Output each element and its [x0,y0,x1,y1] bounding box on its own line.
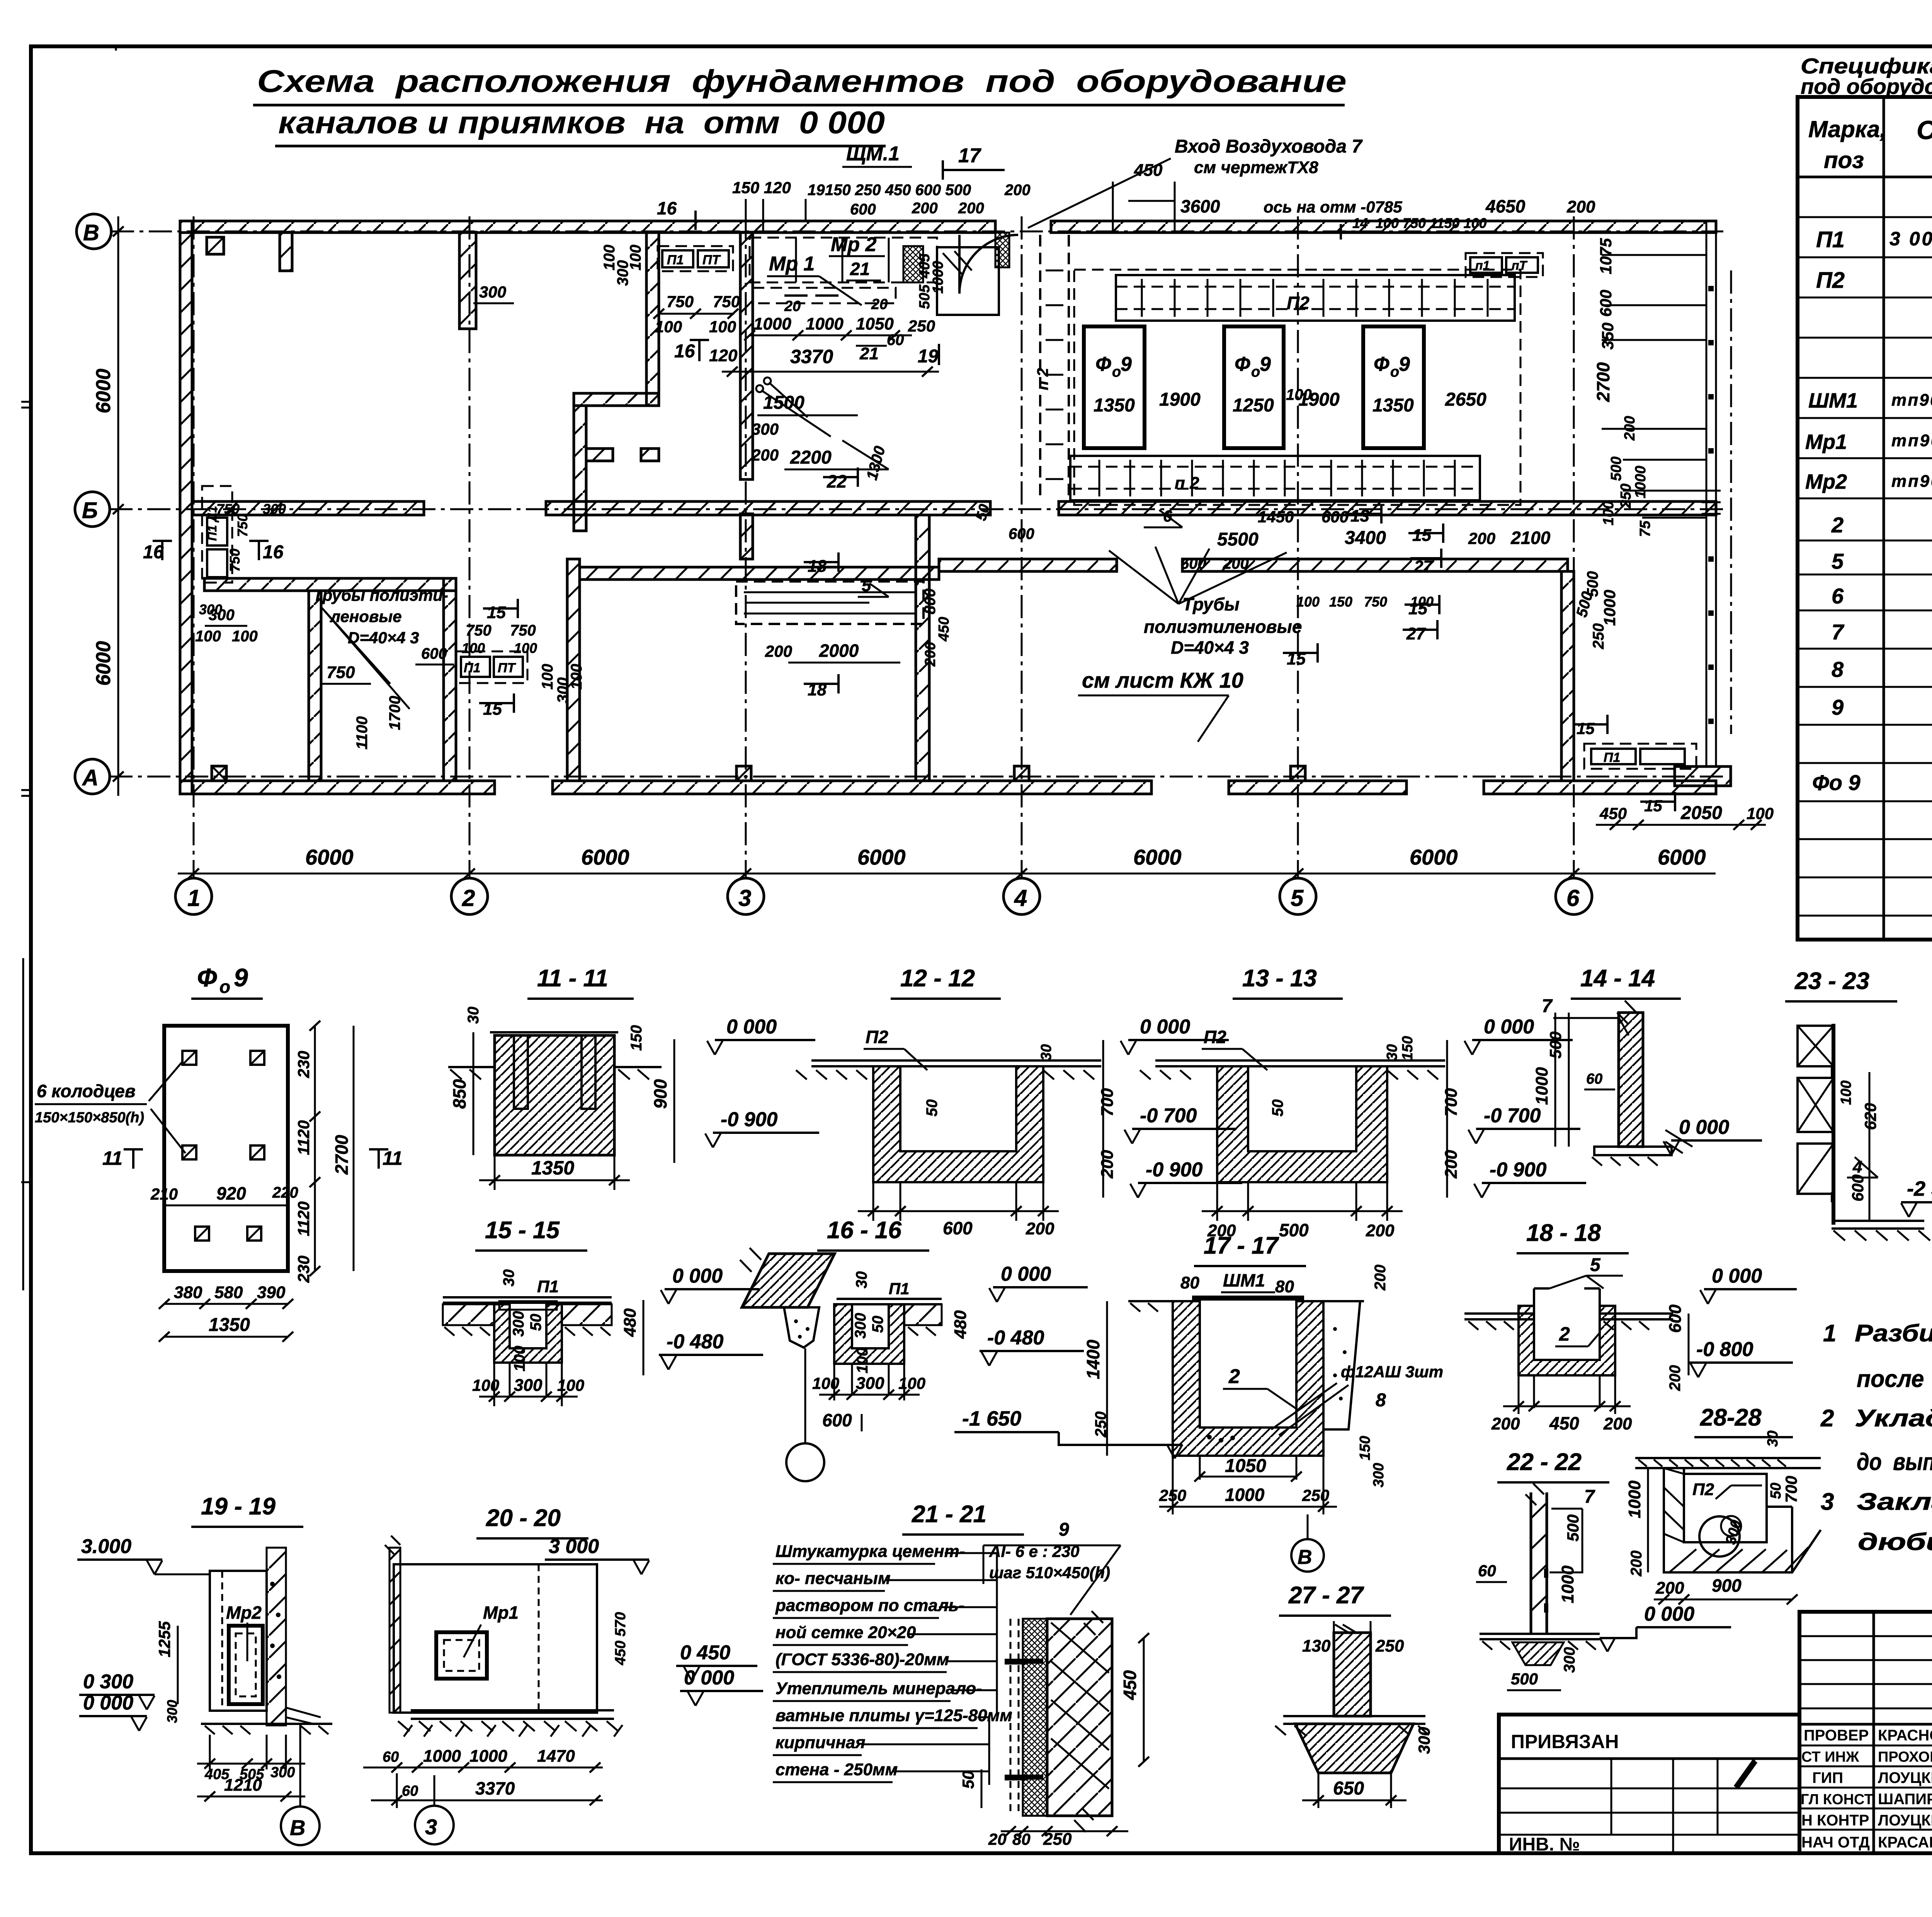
foundation Фо9 #2 [1224,326,1284,448]
svg-text:леновые: леновые [330,607,402,625]
svg-text:6000: 6000 [92,641,115,686]
section 12-12: dims and levels [858,1016,1242,1238]
section 28-28: pit plan [1635,1458,1821,1572]
svg-text:П2: П2 [1287,293,1310,313]
svg-text:о: о [1251,364,1260,380]
svg-text:Мр 1: Мр 1 [769,253,815,275]
svg-text:11: 11 [102,1147,122,1169]
svg-text:750: 750 [1364,594,1387,610]
foundation Фо9 #1 [1084,326,1145,448]
svg-text:ПРИВЯЗАН: ПРИВЯЗАН [1511,1731,1619,1752]
svg-text:300: 300 [752,420,779,438]
svg-text:150: 150 [1400,1036,1416,1060]
plan: vertical axis lines 1-6 [194,216,1574,878]
svg-text:100: 100 [709,318,736,336]
svg-text:15: 15 [1412,526,1431,545]
svg-text:200: 200 [765,642,792,660]
svg-text:150 120: 150 120 [732,178,791,197]
svg-text:850: 850 [449,1079,469,1109]
section 23-23: dims [1838,1072,1932,1221]
notes: item 2 [1820,1405,1932,1475]
plan: dimension texts upper middle (Мр1/Мр2 area) [601,233,946,491]
svg-text:700: 700 [1098,1088,1117,1117]
svg-text:о: о [1112,364,1121,380]
section 17-17: deep pit [1128,1270,1364,1456]
svg-text:Мр1: Мр1 [1805,430,1847,454]
svg-text:200: 200 [1004,182,1031,199]
svg-text:6000: 6000 [581,845,629,869]
section 19-19: levels and dims [77,1535,320,1845]
wall: top exterior (axis В) [180,221,1716,233]
svg-text:250: 250 [1159,1486,1186,1504]
svg-text:100: 100 [1838,1081,1854,1105]
title block: signature rows [1799,1727,1932,1851]
svg-text:2: 2 [1831,513,1844,537]
section 16-16: labels, dims, callout circle [786,1263,1088,1481]
section 27-27: title [1279,1582,1391,1616]
svg-text:1000: 1000 [1633,466,1649,498]
section 11-11: dims [449,1007,819,1190]
svg-text:220: 220 [272,1184,298,1201]
svg-text:75: 75 [1637,520,1653,537]
svg-text:150×150×850(h): 150×150×850(h) [35,1110,144,1126]
svg-text:п1: п1 [1475,258,1490,272]
svg-text:Ф: Ф [197,963,217,992]
plan: middle annotations 5500/3400 row [973,503,1619,668]
svg-text:300: 300 [1371,1463,1387,1487]
svg-text:100: 100 [568,664,585,690]
plan: см лист КЖ 10 annotation [1078,668,1243,742]
section 19-19: wall elevation with frame Мр2 [201,1548,332,1734]
svg-text:D=40×4 3: D=40×4 3 [348,629,419,647]
svg-text:7: 7 [1542,996,1553,1016]
section Фо9: bottom dims [150,1183,298,1342]
svg-text:50: 50 [923,1100,940,1117]
svg-text:100: 100 [1286,386,1312,403]
svg-text:200: 200 [1603,1414,1632,1433]
plan: axis circle Б [75,492,110,527]
notes: item 3 [1821,1489,1932,1555]
svg-text:27: 27 [1414,557,1433,575]
svg-text:СТ ИНЖ: СТ ИНЖ [1801,1749,1859,1765]
svg-text:1350: 1350 [1094,395,1135,416]
section Фо9: foundation plan rectangle [164,1026,288,1271]
specification table grid [1798,97,1932,940]
svg-text:п 2: п 2 [1175,474,1199,493]
svg-text:ПТ: ПТ [702,253,721,267]
svg-text:4: 4 [1014,885,1027,911]
svg-text:Схема расположения фундамент: Схема расположения фундаментов под обору… [257,64,1347,99]
svg-text:ШАПИРО: ШАПИРО [1878,1791,1932,1808]
section 21-21: wall detail with insulation [1005,1611,1112,1832]
wall: axis Б interior with openings [192,501,1716,515]
svg-text:9: 9 [234,963,248,992]
svg-text:ШМ1: ШМ1 [1223,1270,1265,1290]
column: pier on А axis x3359 [1291,766,1305,781]
svg-text:ко- песчаным: ко- песчаным [776,1569,891,1588]
svg-text:250: 250 [1302,1486,1329,1504]
svg-text:700: 700 [1782,1476,1800,1503]
svg-text:тп902-9-40 86 КЖИ Мр2: тп902-9-40 86 КЖИ Мр2 [1891,472,1932,491]
svg-text:150: 150 [1329,594,1352,610]
wall: left exterior (axis 1) [180,221,192,794]
svg-text:0 000: 0 000 [83,1692,133,1714]
svg-text:80: 80 [1275,1277,1294,1296]
svg-text:750: 750 [327,663,355,682]
svg-text:390: 390 [257,1283,286,1302]
svg-text:210: 210 [150,1185,178,1203]
svg-text:30: 30 [853,1271,870,1289]
svg-text:300: 300 [510,1311,527,1337]
svg-text:900: 900 [1712,1575,1742,1596]
svg-text:230: 230 [294,1256,313,1283]
section 19-19: title [191,1493,303,1527]
svg-text:600: 600 [943,1218,973,1238]
section Фо9: колодцев annotation [35,1062,185,1153]
svg-text:1000: 1000 [1532,1067,1551,1105]
section 11-11: pier body [377,1032,662,1155]
svg-text:30: 30 [1765,1431,1781,1447]
plan: lower-left room dims [195,552,952,749]
svg-text:Разбивку гнезда фундаментов: Разбивку гнезда фундаментов производить [1855,1320,1932,1347]
svg-text:100: 100 [854,1348,871,1373]
svg-text:20: 20 [871,296,888,313]
svg-text:-0 700: -0 700 [1140,1105,1197,1127]
title block: привязан extension box [1499,1715,1799,1855]
svg-text:9: 9 [1059,1519,1069,1540]
section 20-20: wall elevation with frame Мр1 [385,1536,622,1737]
plan: Трубы полиэтиленовые annotation (center) [1109,547,1302,658]
svg-text:П1: П1 [537,1277,559,1296]
svg-text:27: 27 [1406,624,1426,643]
svg-text:920: 920 [216,1183,246,1203]
svg-text:2: 2 [1228,1365,1240,1388]
svg-text:100: 100 [511,1346,528,1371]
svg-text:7: 7 [1832,620,1845,644]
svg-text:1000: 1000 [1625,1480,1644,1518]
svg-text:2: 2 [1820,1405,1834,1432]
svg-text:800: 800 [922,588,939,614]
svg-text:30: 30 [1038,1044,1054,1060]
channel: п1 пТ boxes top right [1466,253,1543,277]
svg-text:22: 22 [827,471,847,491]
section Фо9: right dim chain [294,1021,354,1283]
svg-text:300: 300 [852,1313,869,1339]
svg-text:2200: 2200 [790,447,832,468]
svg-text:1050: 1050 [1225,1456,1266,1476]
main drawing title line 2 [275,105,886,146]
svg-text:2700: 2700 [332,1135,352,1175]
section 12-12: channel body [796,1060,1101,1182]
svg-text:250: 250 [1375,1637,1404,1655]
column: pier on А axis x2644 [1014,766,1029,781]
svg-text:30: 30 [465,1007,482,1024]
plan: bottom right dims 450/15/2050/100 [1573,715,1774,830]
svg-text:23 - 23: 23 - 23 [1794,968,1869,994]
svg-text:100: 100 [232,628,258,645]
svg-text:9: 9 [1121,353,1132,376]
svg-text:100: 100 [655,318,682,336]
svg-text:200: 200 [1667,1365,1684,1391]
svg-text:650: 650 [1333,1778,1364,1799]
channel: vertical ladder п2 left of vent room [1034,235,1069,501]
svg-text:0 000: 0 000 [672,1265,723,1287]
svg-text:5: 5 [1590,1255,1601,1275]
svg-text:ШМ1: ШМ1 [1808,389,1858,412]
column: pier on А axis x567 [212,766,226,781]
svg-text:450: 450 [1599,804,1627,823]
svg-text:50: 50 [869,1316,886,1333]
svg-text:6000: 6000 [305,845,354,869]
svg-text:3600: 3600 [1180,196,1220,216]
svg-text:300: 300 [1561,1647,1578,1673]
svg-text:200: 200 [922,642,939,667]
section 18-18: dims [1491,1265,1797,1433]
svg-text:100: 100 [539,664,556,690]
svg-text:500: 500 [1511,1670,1538,1688]
svg-text:Марка,: Марка, [1808,116,1886,142]
svg-text:кирпичная: кирпичная [776,1733,866,1752]
svg-text:дюбилями к подпорной стенке: дюбилями к подпорной стенке [1858,1529,1932,1555]
svg-text:каналов и приямков на отм 0: каналов и приямков на отм 0 000 [278,105,885,140]
svg-text:3 000: 3 000 [549,1535,599,1558]
svg-text:1000: 1000 [1600,590,1619,626]
svg-text:П1: П1 [1816,227,1845,252]
svg-text:1900: 1900 [1159,389,1201,410]
svg-text:30: 30 [500,1270,517,1287]
svg-text:полиэтиленовые: полиэтиленовые [1144,617,1302,637]
section Фо9: cut mark 11 right [369,1147,403,1169]
svg-text:450: 450 [936,617,952,642]
svg-text:200: 200 [1566,197,1595,216]
svg-text:1075: 1075 [1597,238,1615,274]
section 17-17: title [1194,1232,1306,1266]
svg-text:300: 300 [856,1374,884,1393]
svg-text:ПТ: ПТ [498,661,516,675]
svg-text:ИНВ. №: ИНВ. № [1509,1834,1580,1855]
wall: interior partition on axis 3 [740,232,753,559]
svg-text:П2: П2 [1692,1480,1714,1499]
wall: lower-left room top partition [204,578,456,591]
section 21-21: title [902,1501,1024,1535]
svg-text:150 250 450 600 500: 150 250 450 600 500 [825,182,971,199]
svg-text:19 - 19: 19 - 19 [201,1493,276,1520]
svg-text:700: 700 [1442,1088,1461,1117]
wall: vertical partition near axis 6 [1561,571,1574,781]
plan section mark 17 top [943,144,1005,180]
plan: axis circle 6 [1556,878,1592,914]
svg-text:3: 3 [738,885,751,911]
svg-text:0 000: 0 000 [1679,1116,1729,1139]
svg-text:1120: 1120 [294,1202,313,1236]
svg-text:15: 15 [487,603,506,622]
svg-text:6000: 6000 [1410,845,1458,869]
section 13-13: П2 label [1202,1027,1267,1070]
plan top dimension chain texts [653,161,1595,240]
svg-text:250: 250 [1590,623,1607,649]
svg-text:ной сетке 20×20: ной сетке 20×20 [776,1623,916,1642]
svg-text:Фо 9: Фо 9 [1812,770,1861,795]
section 14-14: dims [1532,1013,1762,1155]
plan: axis circle 5 [1280,878,1316,914]
svg-text:9: 9 [1832,695,1844,719]
svg-text:2700: 2700 [1593,362,1613,402]
svg-text:27 - 27: 27 - 27 [1288,1582,1364,1609]
svg-text:200: 200 [1366,1221,1395,1240]
svg-text:5: 5 [1291,885,1304,911]
svg-text:ПРОХОРОВА: ПРОХОРОВА [1878,1749,1932,1765]
channel: П1 boxes bottom right [1584,744,1696,769]
plan: Трубы полиэти-леновые annotation (left room) [313,586,448,709]
vent equipment rectangle top-left of vent room [937,247,999,315]
svg-text:Мр1: Мр1 [483,1603,519,1623]
svg-text:100: 100 [627,245,644,270]
svg-text:100: 100 [1600,501,1617,525]
svg-text:1470: 1470 [537,1747,575,1766]
svg-text:0 000: 0 000 [1001,1263,1051,1285]
svg-text:ЛОУЦКЕР: ЛОУЦКЕР [1878,1812,1932,1829]
svg-text:1000: 1000 [1225,1485,1265,1505]
svg-text:0 000: 0 000 [726,1016,777,1038]
svg-text:300: 300 [263,501,286,517]
svg-text:п 2: п 2 [1034,368,1051,390]
section 27-27: column footing [1251,1621,1433,1808]
svg-text:ЛОУЦКЕР: ЛОУЦКЕР [1878,1769,1932,1786]
section 23-23: wall with embeds [1798,1024,1930,1241]
svg-text:1250: 1250 [1233,395,1274,416]
svg-text:П2: П2 [866,1027,888,1047]
svg-text:1000: 1000 [930,261,946,294]
svg-text:600: 600 [1009,525,1034,542]
svg-text:250: 250 [1618,484,1634,508]
svg-text:150: 150 [628,1025,645,1051]
svg-text:480: 480 [951,1310,970,1339]
svg-text:200: 200 [1026,1219,1054,1238]
wall: lower-left vertical partition a [309,591,321,781]
svg-text:3370: 3370 [475,1778,515,1798]
svg-text:Трубы полиэти-: Трубы полиэти- [313,586,448,604]
svg-text:-0 900: -0 900 [1146,1159,1203,1181]
svg-text:ЩМ.1: ЩМ.1 [846,143,900,165]
svg-text:13 - 13: 13 - 13 [1242,965,1317,992]
svg-text:600: 600 [850,201,876,218]
svg-text:ф12АШ 3шт: ф12АШ 3шт [1341,1363,1443,1381]
svg-text:600: 600 [1666,1304,1685,1333]
svg-text:пТ: пТ [1512,258,1528,272]
main drawing title line 1 [253,64,1347,105]
svg-text:1100: 1100 [354,716,371,749]
svg-text:5500: 5500 [1217,529,1259,550]
svg-text:0 000: 0 000 [1484,1016,1534,1038]
section 12-12: П2 label [864,1027,927,1070]
plan: axis line А horizontal [109,776,1723,778]
wall: central vertical partition at axis 2 area [567,559,580,781]
column: corner pier top-left [207,237,224,254]
section 28-28: dims [1600,1431,1800,1652]
section 28-28: title [1694,1404,1793,1437]
svg-text:стена - 250мм: стена - 250мм [776,1760,898,1779]
plan: axis line Б horizontal [109,508,1723,510]
svg-text:230: 230 [294,1051,313,1078]
svg-text:5: 5 [862,576,871,595]
svg-text:300: 300 [270,1764,295,1781]
svg-text:Штукатурка цемент-: Штукатурка цемент- [776,1542,965,1561]
dim texts between foundations [1159,386,1486,410]
svg-text:60: 60 [383,1749,399,1765]
svg-text:60: 60 [887,331,904,348]
svg-text:В: В [1298,1546,1312,1569]
section Фо9: cut mark 11 left [102,1147,143,1169]
svg-text:ватные плиты γ=125-80мм: ватные плиты γ=125-80мм [776,1706,1012,1725]
svg-text:Ф: Ф [1374,353,1389,376]
svg-text:1050: 1050 [856,314,894,333]
svg-text:20: 20 [988,1830,1007,1848]
svg-text:200: 200 [958,200,984,217]
svg-text:D=40×4 3: D=40×4 3 [1171,637,1249,658]
svg-text:17: 17 [958,144,981,167]
svg-text:200: 200 [1098,1150,1117,1179]
svg-text:20: 20 [784,298,801,314]
section 20-20: title [476,1505,588,1538]
svg-text:-1 650: -1 650 [962,1407,1021,1430]
svg-text:9: 9 [1260,353,1271,376]
svg-text:200: 200 [1223,555,1249,572]
svg-text:П2: П2 [1204,1027,1226,1047]
svg-text:12 - 12: 12 - 12 [900,965,975,992]
svg-text:1: 1 [1823,1320,1836,1347]
svg-text:5: 5 [1832,549,1844,573]
wall: Г-shaped partition near axis 2 [574,232,659,531]
plan: dims above upper-left closet [473,283,514,303]
door: quarter-circle swing top of vent chamber [959,233,1018,294]
svg-text:3.000: 3.000 [81,1535,131,1558]
section 17-17: labels and dims [954,1264,1443,1572]
svg-text:8: 8 [1832,657,1844,681]
svg-text:300: 300 [164,1700,180,1723]
svg-text:ГИП: ГИП [1812,1769,1843,1786]
svg-text:1000: 1000 [753,314,791,333]
foundation Фо9 #3 [1363,326,1424,448]
svg-text:6000: 6000 [92,369,115,413]
svg-text:750: 750 [713,292,740,311]
svg-text:П1: П1 [667,253,684,267]
svg-text:100: 100 [472,1376,499,1394]
svg-text:П1: П1 [464,661,480,675]
wall: corridor partition below Б [939,559,1568,571]
section 16-16: title [817,1217,929,1251]
svg-text:2650: 2650 [1445,389,1486,410]
svg-text:ПРОВЕР: ПРОВЕР [1804,1727,1869,1744]
svg-text:100: 100 [812,1374,839,1392]
svg-text:1450: 1450 [1258,508,1294,526]
plan: axis line B horizontal [111,231,1723,233]
svg-text:200: 200 [1372,1264,1389,1291]
svg-text:КРАСНОВА: КРАСНОВА [1878,1727,1932,1744]
svg-text:шаг 510×450(h): шаг 510×450(h) [989,1564,1110,1582]
svg-text:480: 480 [621,1308,639,1337]
section 21-21: rebar annotation [983,1519,1121,1615]
svg-text:100: 100 [514,640,537,656]
svg-text:Ф: Ф [1235,353,1250,376]
section 16-16: sloped wall and channel [740,1248,942,1364]
section 14-14: title [1571,965,1681,999]
svg-text:300: 300 [1415,1727,1433,1754]
svg-text:450: 450 [1549,1413,1579,1433]
svg-text:120: 120 [709,346,738,365]
top frame inner tick [116,46,133,51]
svg-text:19: 19 [808,182,825,199]
svg-text:11 - 11: 11 - 11 [537,965,608,992]
